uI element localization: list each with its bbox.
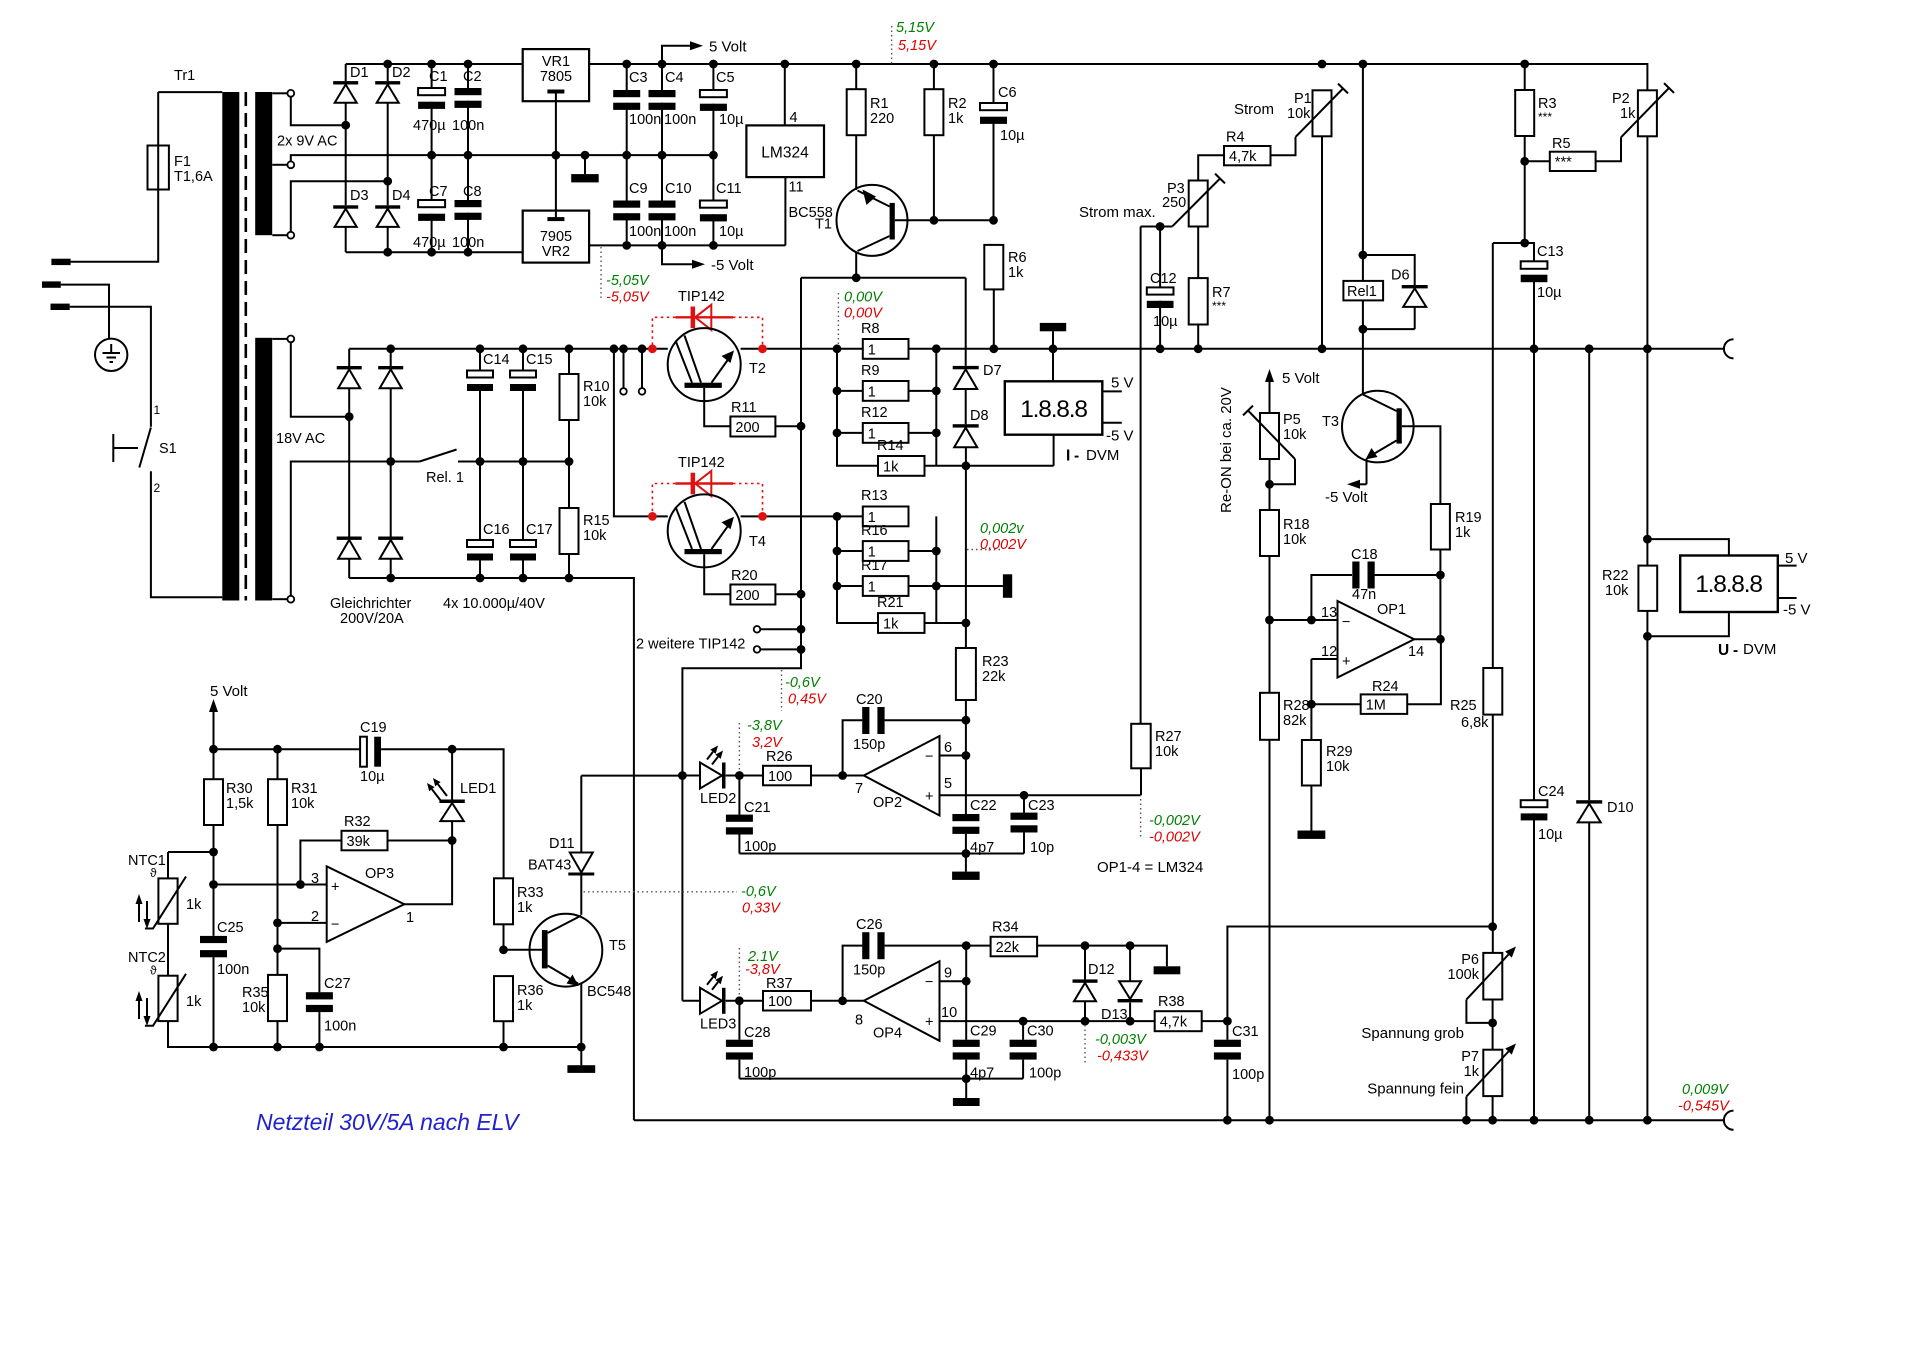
- mains pin N: [51, 304, 70, 310]
- capacitor C7: [418, 200, 445, 207]
- svg-text:D2: D2: [392, 65, 411, 81]
- internal diode of T2 (red): [652, 305, 762, 345]
- svg-text:1k: 1k: [883, 616, 899, 632]
- resistor R1: [847, 89, 866, 135]
- wire OP2 filter ground: [739, 853, 1024, 855]
- wire bridge col1: [348, 349, 350, 537]
- wire D3 anode: [345, 227, 347, 252]
- svg-text:13: 13: [1321, 605, 1337, 621]
- wire P2 column to bottom bus: [1646, 349, 1648, 1120]
- diode D10: [1576, 800, 1602, 803]
- svg-text:6: 6: [944, 740, 952, 756]
- svg-text:C21: C21: [744, 800, 771, 816]
- svg-text:C16: C16: [483, 522, 510, 538]
- wire T1 collector net: [801, 252, 966, 427]
- junction dots 0V rail: [427, 151, 718, 160]
- resistor R5: [1550, 152, 1596, 171]
- svg-text:-5 Volt: -5 Volt: [711, 257, 754, 274]
- junction dot R35/C27: [273, 944, 282, 953]
- svg-text:OP4: OP4: [873, 1026, 902, 1042]
- svg-text:−: −: [925, 975, 933, 991]
- svg-text:-0,6V: -0,6V: [741, 884, 777, 900]
- junction dots top rail: [383, 60, 1529, 69]
- svg-text:R6: R6: [1008, 250, 1027, 266]
- svg-text:+: +: [331, 880, 339, 896]
- svg-text:10k: 10k: [1287, 106, 1311, 122]
- VR2 ground tab: [547, 217, 564, 221]
- capacitor C2: [455, 88, 482, 95]
- resistor R37: [763, 991, 811, 1011]
- svg-text:Spannung fein: Spannung fein: [1367, 1081, 1464, 1098]
- svg-text:R21: R21: [877, 595, 904, 611]
- wire to R27 (long): [1140, 227, 1142, 724]
- diode D8: [953, 424, 979, 427]
- wire primary top: [158, 92, 222, 145]
- svg-text:R33: R33: [517, 885, 544, 901]
- svg-text:R12: R12: [861, 405, 888, 421]
- svg-text:-: -: [1074, 448, 1079, 465]
- capacitor C5: [700, 90, 727, 97]
- svg-text:R16: R16: [861, 523, 888, 539]
- wire PE to earth: [61, 285, 109, 339]
- svg-text:Rel1: Rel1: [1347, 284, 1377, 300]
- node 5,15V annotation: [891, 26, 893, 64]
- diode D7: [953, 366, 979, 369]
- svg-text:10k: 10k: [1326, 759, 1350, 775]
- svg-text:10k: 10k: [1283, 427, 1307, 443]
- resistor R17: [863, 576, 909, 596]
- diode D13: [1119, 981, 1141, 999]
- svg-text:14: 14: [1408, 644, 1424, 660]
- junction dots main bus: [386, 344, 1652, 353]
- svg-text:P6: P6: [1461, 952, 1479, 968]
- svg-text:C6: C6: [998, 85, 1017, 101]
- svg-text:150p: 150p: [853, 737, 885, 753]
- svg-text:-0,545V: -0,545V: [1678, 1099, 1730, 1115]
- wire P7 wiper to bus: [1465, 1097, 1467, 1121]
- svg-text:10µ: 10µ: [1000, 128, 1025, 144]
- resistor R38: [1155, 1011, 1202, 1031]
- svg-text:OP3: OP3: [365, 866, 394, 882]
- wire R16 leads: [837, 550, 936, 552]
- 5 Volt arrow P5: [1269, 382, 1271, 413]
- wire T4 emitter to R20: [704, 554, 730, 594]
- svg-text:250: 250: [1162, 195, 1186, 211]
- svg-text:C10: C10: [665, 181, 692, 197]
- svg-text:5 Volt: 5 Volt: [709, 39, 747, 56]
- svg-text:10k: 10k: [583, 528, 607, 544]
- svg-text:LED1: LED1: [460, 781, 496, 797]
- capacitor C20: [862, 707, 869, 734]
- svg-text:C9: C9: [629, 181, 648, 197]
- svg-text:1,5k: 1,5k: [226, 796, 254, 812]
- voltage regulator VR2 7905: [523, 211, 589, 263]
- junction dots C18: [1307, 571, 1445, 625]
- wire P2 bottom to bus: [1646, 136, 1648, 348]
- svg-text:Gleichrichter: Gleichrichter: [330, 596, 412, 612]
- junction dots R22/U-DVM: [1643, 535, 1652, 641]
- junction dots R37 line: [735, 996, 847, 1005]
- potentiometer P7: [1483, 1050, 1502, 1096]
- svg-text:100p: 100p: [1232, 1067, 1264, 1083]
- svg-text:22k: 22k: [982, 669, 1006, 685]
- svg-text:C26: C26: [856, 917, 883, 933]
- svg-text:R22: R22: [1602, 568, 1629, 584]
- svg-text:2x 9V AC: 2x 9V AC: [277, 134, 337, 150]
- svg-text:R11: R11: [731, 400, 757, 416]
- diode D12: [1073, 979, 1098, 982]
- svg-text:100n: 100n: [217, 962, 249, 978]
- transformer Tr1 secondary winding bar (2x9V): [255, 92, 272, 235]
- svg-text:F1: F1: [174, 154, 191, 170]
- svg-text:T2: T2: [749, 361, 766, 377]
- svg-text:D7: D7: [983, 363, 1002, 379]
- svg-text:1k: 1k: [1008, 265, 1024, 281]
- svg-text:+: +: [925, 789, 933, 805]
- wire sense bar to DVM: [1052, 331, 1054, 381]
- resistor R20: [730, 585, 775, 605]
- svg-text:R27: R27: [1155, 729, 1182, 745]
- resistor R27: [1131, 724, 1151, 769]
- resistor R19: [1431, 504, 1450, 550]
- junction dots diode pair bottom: [1081, 1017, 1135, 1026]
- svg-text:VR1: VR1: [542, 54, 570, 70]
- svg-text:C18: C18: [1351, 547, 1378, 563]
- svg-text:-5 Volt: -5 Volt: [1325, 489, 1368, 506]
- NTC2 trim arrows: [139, 998, 147, 1019]
- resistor R9: [863, 381, 909, 401]
- wire R9 leads: [837, 390, 936, 392]
- junction dots relay node: [476, 457, 574, 466]
- wire emitter junction column: [682, 426, 801, 1001]
- svg-text:TIP142: TIP142: [678, 289, 725, 305]
- capacitor C13: [1521, 261, 1548, 269]
- capacitor C14: [467, 371, 493, 378]
- svg-text:R29: R29: [1326, 744, 1353, 760]
- resistor R33: [494, 878, 513, 924]
- svg-text:T3: T3: [1322, 414, 1339, 430]
- svg-text:4: 4: [790, 110, 798, 126]
- svg-text:T1: T1: [815, 217, 832, 233]
- svg-text:0,00V: 0,00V: [844, 290, 883, 306]
- ground bar OP2: [952, 872, 980, 880]
- junction dot Rel1/D6 top: [1359, 251, 1368, 260]
- wire D11 to T5 collector: [580, 876, 582, 915]
- svg-text:100: 100: [768, 994, 792, 1010]
- svg-text:4,7k: 4,7k: [1229, 149, 1257, 165]
- svg-text:C27: C27: [324, 976, 351, 992]
- svg-text:C30: C30: [1027, 1024, 1054, 1040]
- svg-text:C7: C7: [429, 184, 448, 200]
- svg-text:D13: D13: [1101, 1007, 1128, 1023]
- svg-text:-5,05V: -5,05V: [606, 273, 650, 289]
- DVM I supply leads: [1102, 391, 1122, 422]
- svg-text:C13: C13: [1537, 244, 1564, 260]
- sense terminal bar (vertical): [1003, 574, 1012, 598]
- junction dot R11 right: [797, 422, 806, 431]
- svg-text:R8: R8: [861, 321, 880, 337]
- svg-text:0,00V: 0,00V: [844, 306, 883, 322]
- capacitor C3: [613, 90, 640, 97]
- resistor R35: [268, 975, 287, 1021]
- potentiometer P3: [1189, 181, 1208, 227]
- svg-text:U: U: [1718, 642, 1729, 659]
- junction dot C22 bottom: [962, 849, 971, 858]
- diode D4: [375, 205, 400, 208]
- wire NTC1-NTC2 link: [167, 924, 169, 976]
- svg-text:R5: R5: [1552, 136, 1571, 152]
- svg-text:C2: C2: [463, 69, 482, 85]
- svg-text:10µ: 10µ: [1153, 314, 1178, 330]
- svg-text:C4: C4: [665, 70, 684, 86]
- capacitor C17: [510, 540, 536, 547]
- svg-text:1: 1: [154, 403, 161, 417]
- -5 Volt arrow (T3): [1360, 483, 1367, 485]
- svg-text:8: 8: [855, 1013, 863, 1029]
- svg-text:R34: R34: [992, 920, 1019, 936]
- wire T4 base line: [614, 349, 863, 517]
- svg-text:10µ: 10µ: [719, 224, 744, 240]
- svg-text:1: 1: [406, 910, 414, 926]
- junction dot Rel1/D6 bottom: [1359, 325, 1368, 334]
- wire relay node: [480, 461, 569, 463]
- svg-text:150p: 150p: [853, 963, 885, 979]
- svg-text:D12: D12: [1088, 962, 1115, 978]
- svg-text:DVM: DVM: [1743, 641, 1776, 658]
- wire D8 to sense column: [965, 447, 967, 648]
- op-amp OP4: [864, 961, 940, 1041]
- output terminal (+): [1724, 339, 1734, 358]
- svg-text:100: 100: [768, 769, 792, 785]
- svg-text:100p: 100p: [1029, 1066, 1061, 1082]
- relay contact Rel. 1: [420, 450, 457, 462]
- svg-text:-5 V: -5 V: [1783, 602, 1811, 619]
- junction dot C13 top: [1520, 239, 1529, 248]
- svg-text:1k: 1k: [1620, 106, 1636, 122]
- resistor R4: [1224, 146, 1271, 165]
- svg-text:LED3: LED3: [700, 1017, 736, 1033]
- wire -5V rail: [589, 244, 785, 246]
- wire P6-P7 link: [1492, 1000, 1494, 1050]
- svg-text:1k: 1k: [517, 900, 533, 916]
- capacitor C12: [1147, 287, 1174, 294]
- resistor R6: [984, 245, 1003, 290]
- ground bar T5: [567, 1065, 595, 1073]
- svg-text:100k: 100k: [1448, 967, 1480, 983]
- wire LED1 to OP3 output: [404, 841, 452, 905]
- capacitor C28: [726, 1040, 753, 1047]
- svg-text:Strom: Strom: [1234, 101, 1274, 118]
- svg-text:10µ: 10µ: [360, 769, 385, 785]
- 5 Volt arrow: [662, 46, 690, 64]
- svg-text:NTC1: NTC1: [128, 853, 166, 869]
- junction dot Strom max: [1156, 222, 1165, 231]
- wire D1 column: [345, 64, 347, 205]
- svg-text:200: 200: [735, 420, 759, 436]
- capacitor C22: [952, 814, 979, 821]
- NTC1 trim arrows: [139, 901, 147, 922]
- svg-text:-0,002V: -0,002V: [1149, 830, 1201, 846]
- svg-text:Rel. 1: Rel. 1: [426, 470, 464, 486]
- wire N to S1: [70, 307, 151, 427]
- svg-text:1k: 1k: [1455, 525, 1471, 541]
- svg-text:470µ: 470µ: [413, 118, 446, 134]
- svg-text:C14: C14: [483, 352, 510, 368]
- svg-text:1: 1: [868, 579, 876, 595]
- -5 Volt arrow: [662, 245, 692, 264]
- svg-text:100n: 100n: [629, 112, 661, 128]
- svg-text:C12: C12: [1150, 271, 1177, 287]
- resistor R14: [878, 456, 925, 476]
- svg-text:1: 1: [868, 426, 876, 442]
- voltage regulator VR1 7805: [523, 49, 589, 101]
- resistor R22: [1638, 566, 1657, 611]
- wire R21 to sense column: [925, 622, 966, 624]
- svg-text:C31: C31: [1232, 1024, 1259, 1040]
- node -0,6V/0,45V annotation: [781, 670, 783, 711]
- capacitor C4: [649, 90, 676, 97]
- op-amp OP1: [1338, 601, 1415, 678]
- capacitor C8: [455, 200, 482, 207]
- svg-text:C24: C24: [1538, 784, 1565, 800]
- wire OP3 pin3: [214, 884, 327, 886]
- svg-text:1k: 1k: [948, 111, 964, 127]
- svg-text:***: ***: [1212, 299, 1226, 313]
- svg-text:1k: 1k: [517, 998, 533, 1014]
- DVM display (I): [1005, 381, 1103, 434]
- junction dots -9V rail: [383, 248, 472, 257]
- svg-text:D11: D11: [549, 836, 575, 852]
- resistor R23: [956, 648, 976, 700]
- svg-text:1M: 1M: [1366, 697, 1386, 713]
- wire VR1 ground to 0V rail: [555, 94, 557, 156]
- svg-text:R36: R36: [517, 983, 544, 999]
- capacitor C30: [1010, 1040, 1037, 1047]
- resistor R8: [863, 339, 909, 359]
- capacitor C16: [467, 540, 493, 547]
- earth ground symbol: [95, 339, 127, 371]
- LED2: [700, 763, 722, 789]
- svg-text:C5: C5: [716, 70, 735, 86]
- op-amp OP2: [864, 736, 940, 816]
- resistor R15: [560, 508, 579, 554]
- wire VR2 ground to 0V rail: [555, 155, 557, 217]
- wire R3/C13 node: [1493, 242, 1525, 244]
- svg-text:***: ***: [1538, 110, 1552, 124]
- capacitor C6: [980, 103, 1007, 110]
- svg-text:39k: 39k: [347, 834, 371, 850]
- wire tap4 to 18V bridge: [291, 342, 349, 416]
- resistor R7: [1189, 278, 1208, 324]
- wire OP1 output: [1414, 638, 1440, 640]
- transformer Tr1 primary winding bar: [222, 92, 239, 601]
- svg-text:1: 1: [868, 384, 876, 400]
- svg-text:R14: R14: [877, 438, 904, 454]
- wire R14 to DVM node: [925, 465, 1054, 467]
- svg-text:C17: C17: [526, 522, 553, 538]
- wire U-DVM bottom: [1647, 612, 1729, 636]
- wire R17 leads: [837, 585, 1003, 587]
- junction dots OP3 ground rail: [209, 1043, 585, 1052]
- svg-text:R19: R19: [1455, 510, 1482, 526]
- red junction dots T4: [648, 512, 767, 521]
- wire tap5 to Rel.1 contact: [291, 462, 420, 596]
- svg-text:5 Volt: 5 Volt: [1282, 370, 1320, 387]
- wire T5 base: [504, 949, 542, 951]
- junction dots R26 line: [735, 771, 847, 780]
- svg-text:1k: 1k: [186, 994, 202, 1010]
- svg-text:+: +: [925, 1015, 933, 1031]
- capacitor C25: [200, 936, 227, 943]
- thermistor NTC1: [167, 852, 169, 878]
- junction dots OP2 inputs: [962, 716, 1029, 800]
- ground bar R29: [1298, 831, 1326, 839]
- svg-text:C8: C8: [463, 184, 482, 200]
- svg-text:5 V: 5 V: [1111, 375, 1134, 392]
- svg-text:5 Volt: 5 Volt: [210, 683, 248, 700]
- wire OP3 pin2: [278, 922, 327, 924]
- junction dot OP1 output: [1436, 635, 1445, 644]
- ground bar 0V: [571, 174, 599, 182]
- svg-text:5 V: 5 V: [1785, 550, 1808, 567]
- svg-text:P1: P1: [1294, 91, 1312, 107]
- svg-text:-5,05V: -5,05V: [606, 290, 650, 306]
- junction dot R38 right: [1223, 1017, 1232, 1026]
- svg-text:200V/20A: 200V/20A: [340, 611, 404, 627]
- junction dots lower bank: [833, 547, 941, 591]
- wire P5 wiper: [1270, 459, 1296, 484]
- svg-text:10k: 10k: [1605, 583, 1629, 599]
- junction dots shunt bank: [833, 387, 941, 438]
- wire Rel1 top: [1362, 64, 1364, 281]
- svg-text:9: 9: [944, 966, 952, 982]
- capacitor C9: [613, 201, 640, 208]
- potentiometer P2: [1638, 90, 1657, 136]
- mains pin PE: [42, 281, 61, 287]
- svg-text:T1,6A: T1,6A: [174, 169, 213, 185]
- junction dot LED1/R32: [448, 836, 457, 845]
- svg-text:100n: 100n: [664, 112, 696, 128]
- svg-text:-0,433V: -0,433V: [1097, 1049, 1149, 1065]
- diode D1: [333, 81, 358, 84]
- svg-text:C22: C22: [970, 798, 997, 814]
- svg-text:82k: 82k: [1283, 713, 1307, 729]
- wire tap3 to D4 anode node: [291, 181, 388, 232]
- svg-text:D8: D8: [970, 408, 989, 424]
- svg-text:0,009V: 0,009V: [1682, 1082, 1729, 1098]
- node -5,05V annotation: [600, 247, 602, 299]
- spare TIP142 stub contacts: [624, 349, 643, 388]
- capacitor C18: [1352, 562, 1359, 589]
- relay coil Rel1: [1343, 281, 1383, 301]
- LED1: [439, 800, 464, 804]
- svg-text:R38: R38: [1158, 994, 1185, 1010]
- capacitor C10: [649, 201, 676, 208]
- resistor R10: [560, 374, 579, 420]
- svg-text:R26: R26: [766, 749, 793, 765]
- junction dots negative rail: [386, 574, 573, 583]
- svg-text:10k: 10k: [291, 796, 315, 812]
- VR1 ground tab: [547, 90, 564, 94]
- resistor R31: [268, 779, 287, 825]
- svg-text:NTC2: NTC2: [128, 950, 166, 966]
- capacitor C1: [418, 88, 445, 95]
- junction dot pin2: [273, 919, 282, 928]
- svg-text:C19: C19: [360, 720, 387, 736]
- wire T1 base to R2/C6: [895, 219, 994, 221]
- svg-text:OP1-4 = LM324: OP1-4 = LM324: [1097, 859, 1203, 876]
- svg-text:R30: R30: [226, 781, 253, 797]
